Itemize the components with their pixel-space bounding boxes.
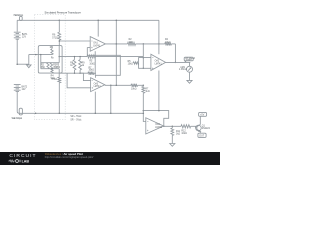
- wire OA3 V+: [95, 75, 97, 77]
- svg-text:1kΩ: 1kΩ: [176, 134, 180, 136]
- resistor R11 vertical: [171, 126, 173, 128]
- wire OA3 minus jog: [80, 73, 91, 80]
- svg-text:BAT1: BAT1: [22, 33, 28, 36]
- op-amp OA4: [146, 118, 164, 134]
- resistor R10: [58, 77, 61, 83]
- svg-text:+5V: +5V: [200, 114, 205, 116]
- ground GND3: [170, 143, 175, 146]
- wire OA1 output: [105, 43, 127, 45]
- resistor R6b: [131, 84, 137, 87]
- svg-text:Simulated Pressure Transducer: Simulated Pressure Transducer: [45, 10, 81, 14]
- wire bridge bottom node down: [28, 55, 30, 65]
- wire OA2 V+: [158, 20, 160, 54]
- svg-text:SR + 5Vdc: SR + 5Vdc: [70, 116, 82, 118]
- wire bridge top tap: [59, 56, 87, 58]
- wire OA1 V+: [97, 20, 99, 36]
- bridge rails: [41, 63, 59, 69]
- ground GND2: [187, 80, 192, 83]
- node top rail R6 tap: [59, 20, 61, 22]
- wire R2 out: [136, 43, 165, 45]
- resistor R5f bracket: [139, 58, 144, 69]
- dashed enclosure box: [34, 15, 65, 120]
- svg-text:OA2: OA2: [155, 60, 160, 63]
- wire bottom rail: [19, 112, 143, 114]
- logo CircuitLab: [9, 154, 36, 159]
- wire OA4 output: [164, 125, 181, 127]
- footer bar: [0, 152, 220, 165]
- op-amp OA2: [151, 54, 166, 70]
- wire R4 corner down: [174, 44, 176, 63]
- resistor RB1: [47, 63, 49, 69]
- node battery midpoint: [16, 63, 18, 65]
- svg-text:OUT: OUT: [199, 135, 204, 137]
- resistor R9: [79, 57, 81, 60]
- ammeter AM1: [187, 66, 193, 72]
- wire top rail to output node: [115, 20, 117, 85]
- svg-text:LAB: LAB: [22, 160, 29, 164]
- svg-text:12V: 12V: [22, 89, 27, 91]
- resistor R12: [181, 125, 191, 128]
- wire OA2 minus chain: [142, 44, 144, 68]
- svg-text:LM741: LM741: [93, 45, 101, 47]
- svg-text:10kΩ: 10kΩ: [128, 64, 134, 66]
- resistor R4 bottom in-box: [51, 69, 53, 73]
- svg-text:12V: 12V: [22, 37, 27, 39]
- wire OA2 output to meter: [166, 61, 191, 63]
- resistor R6: [58, 32, 61, 40]
- pressure port P1: [20, 16, 23, 20]
- wire top rail: [17, 19, 159, 21]
- svg-text:571Ω: 571Ω: [52, 37, 58, 39]
- wire R6 drop: [58, 20, 60, 32]
- battery BAT2: [14, 85, 21, 114]
- wire OA1 V-: [94, 51, 96, 75]
- battery BAT1: [14, 32, 21, 64]
- tag emitter: [198, 133, 206, 137]
- resistor RB2: [50, 63, 52, 69]
- wire bridge bottom tap: [59, 72, 88, 74]
- svg-text:10kΩ: 10kΩ: [165, 42, 171, 44]
- wire left rail top: [16, 20, 18, 31]
- svg-text:LM741: LM741: [155, 63, 163, 65]
- op-amp OA1: [87, 37, 105, 52]
- wire bridge out bottom: [58, 69, 60, 78]
- resistor R8: [74, 57, 76, 60]
- svg-text:OA3: OA3: [94, 82, 99, 85]
- svg-text:10kΩ: 10kΩ: [131, 88, 137, 90]
- url text: [45, 156, 94, 159]
- svg-text:1kΩ: 1kΩ: [145, 91, 149, 93]
- wire emitter down: [199, 131, 201, 133]
- resistor R4f: [165, 42, 172, 45]
- wire OA2 input stubs: [143, 58, 151, 69]
- wire R7b chain to OA4 minus: [143, 93, 146, 121]
- wire collector up: [199, 116, 201, 124]
- resistor R3a top tap: [87, 55, 95, 58]
- tag collector: [199, 112, 207, 116]
- resistor R3b bottom tap: [88, 72, 94, 75]
- wire OA3 output: [105, 84, 131, 86]
- bridge box: [38, 46, 62, 74]
- transistor Q1: [196, 125, 202, 132]
- svg-text:10kΩ: 10kΩ: [89, 63, 95, 65]
- wire OA3 V-: [94, 92, 96, 114]
- wire output down to bottom rail: [110, 85, 112, 113]
- svg-text:571Ω: 571Ω: [51, 79, 57, 81]
- resistor R2: [128, 42, 136, 45]
- svg-text:1kΩ: 1kΩ: [129, 42, 133, 44]
- svg-text:SR − 5Vdc: SR − 5Vdc: [70, 120, 82, 122]
- wire OA1 minus from R6 node: [59, 40, 90, 42]
- svg-text:Static Air Input: Static Air Input: [12, 117, 23, 120]
- op-amp OA3: [91, 78, 105, 92]
- svg-text:2N2222: 2N2222: [202, 128, 211, 130]
- wire bridge mid column: [40, 55, 42, 69]
- resistor R1 top in-box: [51, 46, 53, 49]
- wire R10 down to bottom rail: [58, 83, 60, 114]
- wire OA3 plus run: [67, 73, 91, 88]
- credit text: [45, 152, 83, 156]
- svg-text:BAT2: BAT2: [22, 85, 28, 88]
- svg-text:OA1: OA1: [93, 42, 98, 45]
- wire OA2 V-: [158, 71, 160, 111]
- resistor R7b vertical: [142, 87, 145, 94]
- wire OA1 plus feedback loop: [87, 48, 120, 76]
- svg-text:LM741: LM741: [155, 127, 163, 129]
- annotation tag air speed: [184, 57, 193, 61]
- svg-text:OA4: OA4: [155, 123, 160, 126]
- svg-text:meter: meter: [186, 59, 192, 62]
- wire battery midpoint to ground: [17, 63, 29, 65]
- wire R6 line in box: [58, 46, 60, 63]
- svg-text:10kΩ: 10kΩ: [181, 133, 187, 135]
- ground GND1: [27, 64, 32, 68]
- svg-text:1.38mA: 1.38mA: [179, 68, 187, 71]
- pressure port P2: [19, 108, 22, 115]
- wire bridge left entry: [29, 54, 52, 56]
- wire feedback loop: [143, 111, 168, 127]
- svg-text:10kΩ: 10kΩ: [89, 70, 95, 72]
- svg-text:LM741: LM741: [94, 86, 102, 88]
